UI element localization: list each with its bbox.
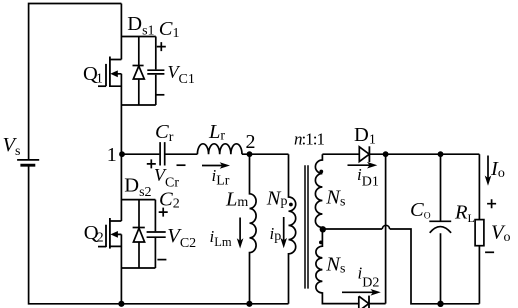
svg-text:Vo: Vo <box>491 222 511 245</box>
svg-text:2: 2 <box>246 131 256 153</box>
svg-text:iD2: iD2 <box>358 264 380 291</box>
svg-text:C2: C2 <box>159 189 180 212</box>
svg-text:Vs: Vs <box>3 134 21 159</box>
svg-text:Ds2: Ds2 <box>124 175 151 200</box>
svg-text:Lr: Lr <box>208 121 225 144</box>
svg-text:Ds1: Ds1 <box>127 13 154 38</box>
svg-text:ip: ip <box>270 224 282 244</box>
svg-text:VC2: VC2 <box>167 225 196 251</box>
svg-text:Lm: Lm <box>225 188 248 210</box>
svg-text:Np: Np <box>266 187 288 209</box>
svg-text:D1: D1 <box>354 124 376 147</box>
svg-text:Q1: Q1 <box>83 63 103 87</box>
svg-text:iLr: iLr <box>212 166 230 189</box>
svg-text:CO: CO <box>410 199 431 222</box>
svg-text:Ns: Ns <box>325 186 345 209</box>
svg-text:iD1: iD1 <box>357 165 379 190</box>
svg-text:VCr: VCr <box>154 165 179 191</box>
svg-text:n:1:1: n:1:1 <box>294 130 324 149</box>
svg-text:Io: Io <box>490 158 505 181</box>
svg-text:Cr: Cr <box>155 121 174 145</box>
svg-text:C1: C1 <box>159 18 180 41</box>
svg-text:Q2: Q2 <box>84 222 104 246</box>
svg-text:Ns: Ns <box>325 253 345 276</box>
svg-text:RL: RL <box>454 201 475 225</box>
svg-text:VC1: VC1 <box>168 62 195 87</box>
svg-text:iLm: iLm <box>210 227 232 249</box>
svg-text:1: 1 <box>107 144 117 166</box>
